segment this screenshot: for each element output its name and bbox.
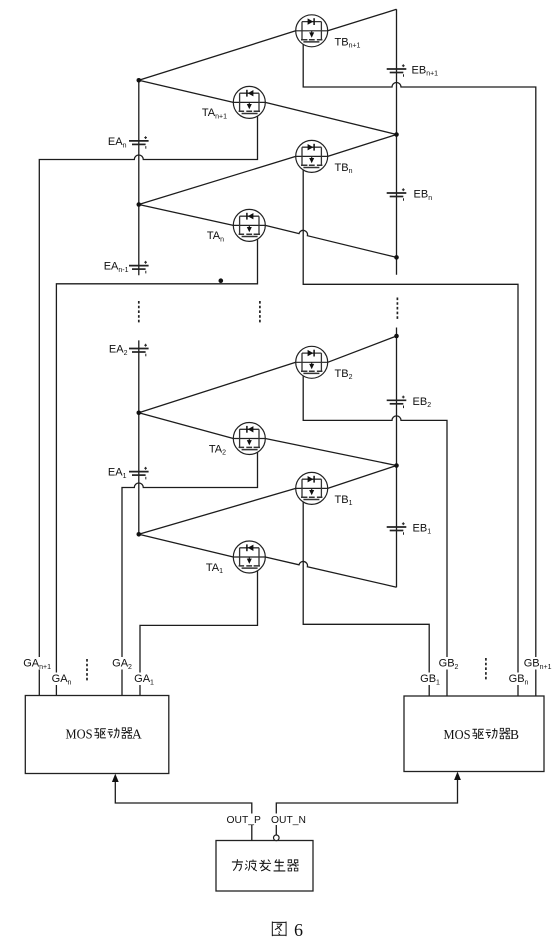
wire: TB_1 gate to GB_1 rail [303, 499, 429, 696]
capacitor EA_n [129, 136, 149, 149]
wire: TB_1 drain to node B_1 diagonal [328, 466, 397, 489]
capacitor EA_1 [129, 467, 149, 480]
svg-text:B: B [510, 727, 519, 742]
wire: node A_n to TB_n source diagonal [139, 156, 296, 204]
MOS driver B box U2 [404, 696, 544, 772]
label GB_n [508, 673, 529, 687]
wire: TB_2 gate to GB_2 rail [303, 373, 447, 696]
wire: node A_2 to TA_2 drain diagonal [139, 413, 234, 439]
wire: TA_n+1 source to node B_n diagonal [265, 102, 396, 134]
wire: TA_n source to node B_n-1 diagonal (hops TB_n gate) [265, 225, 396, 257]
MOS driver A box text [66, 727, 143, 742]
wire: OUT_N to MOS driver B [276, 779, 457, 835]
label GA_1 [133, 673, 154, 687]
square wave generator box U3 [216, 841, 313, 892]
arrowhead into driver A [112, 774, 119, 782]
svg-text:OUT_N: OUT_N [271, 815, 306, 826]
capacitor EA_2 [129, 344, 149, 357]
caption: figure 6 [272, 920, 303, 940]
node B_2 junction dot [394, 334, 399, 339]
node A_n+1 junction dot [137, 78, 142, 83]
wire: TA_2 source to node B_1 diagonal [265, 439, 396, 466]
transistor TA_n [233, 209, 265, 241]
capacitor EB_1 [387, 522, 407, 535]
wire: TB_n gate to GB_n rail [303, 167, 518, 696]
capacitor EB_n+1 [387, 64, 407, 77]
transistor TB_n [296, 140, 328, 172]
wire: TB_n+1 drain up to EB_n+1 top corner [328, 9, 397, 31]
label GA_n [51, 673, 72, 687]
capacitor EB_2 [387, 396, 407, 409]
svg-text:MOS: MOS [444, 727, 471, 742]
svg-text:OUT_P: OUT_P [227, 815, 261, 826]
wire: EA column vertical [138, 80, 140, 534]
wire: TA_n gate to GA_n rail [56, 236, 257, 696]
wire: TB_n drain to node B_n diagonal [328, 135, 397, 157]
wire: TA_1 gate to GA_1 rail [140, 568, 258, 696]
wire: node A_1 to TA_1 drain diagonal [139, 534, 234, 557]
wire: node A_2 to TB_2 source diagonal [139, 362, 296, 413]
wire: node A_n+1 to TA_n+1 drain diagonal [139, 80, 234, 102]
label GA_2 [111, 657, 132, 671]
ellipsis EA column [138, 301, 140, 324]
transistor TB_1 [296, 472, 328, 504]
wire: OUT_P to MOS driver A [115, 781, 252, 841]
node A_1 junction dot [137, 532, 142, 537]
wire: node A_n to TA_n drain diagonal [139, 205, 234, 226]
label GB_n+1 [523, 657, 552, 671]
wire: TA_n+1 gate to GA_n+1 rail [39, 113, 257, 696]
node B_n-1 junction dot [394, 255, 399, 260]
node A_2 junction dot [137, 411, 142, 416]
ellipsis TA gate column [259, 301, 261, 324]
node A_n junction dot [137, 202, 142, 207]
ellipsis GB columns [485, 658, 487, 681]
wire: node A_n+1 to TB_n+1 source diagonal [139, 31, 296, 81]
arrowhead into driver B [454, 772, 461, 780]
wire: TB_2 drain to node B_2 diagonal [328, 336, 397, 362]
label GA_n+1 [22, 657, 51, 671]
svg-text:A: A [132, 727, 142, 742]
node B_1 junction dot [394, 463, 399, 468]
node B_n junction dot [394, 132, 399, 137]
capacitor EA_n-1 [129, 261, 149, 274]
ellipsis GA columns [86, 659, 88, 682]
label OUT_N [270, 814, 306, 827]
MOS driver B box text [444, 727, 520, 742]
label OUT_P [226, 814, 261, 827]
wire: TB_n+1 gate to GB_n+1 rail [303, 41, 536, 696]
wire: EB column vertical [396, 9, 398, 587]
ellipsis EB column [396, 298, 398, 321]
transistor TB_2 [296, 346, 328, 378]
label GB_2 [438, 657, 459, 671]
wire: TA_2 gate to GA_2 rail [122, 449, 258, 696]
transistor TA_1 [233, 541, 265, 573]
square wave generator text [232, 859, 299, 871]
wire: node A_1 to TB_1 source diagonal [139, 488, 296, 534]
MOS driver A box U1 [25, 696, 169, 774]
svg-text:6: 6 [294, 920, 303, 940]
transistor TA_n+1 [233, 86, 265, 118]
capacitor EB_n [387, 188, 407, 201]
inverter bubble on OUT_N [274, 835, 280, 841]
wire: TA_1 source to EB_1 bottom diagonal (hops TB_1 gate) [265, 557, 396, 587]
node OUT tap junction dot [219, 278, 224, 283]
label GB_1 [419, 673, 440, 687]
transistor TA_2 [233, 423, 265, 455]
svg-text:MOS: MOS [66, 727, 93, 742]
transistor TB_n+1 [296, 15, 328, 47]
